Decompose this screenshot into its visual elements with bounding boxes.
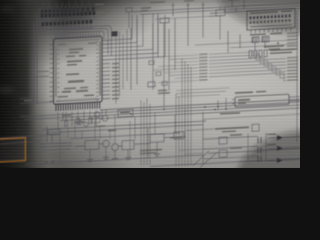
wire stubs from U1 bottom pins [58,110,106,131]
resistor R13 vertical [89,118,92,124]
label right of T1 [141,7,151,9]
component small box on title row [252,124,259,131]
wire collect line under connectors [41,28,93,34]
label under bus [220,112,240,114]
wire feeds from mid verticals to net rows [153,55,198,83]
U1 inner left pin numbers [57,45,59,102]
U1 inner top tick numbers [57,38,98,42]
transistor Q2 [102,115,108,121]
wire stubs below J2 [43,24,91,31]
label right of RN2 [270,48,296,51]
switch table S1 box [247,9,295,31]
wire long bottom rail [25,149,300,173]
wire rows above X1 [176,88,230,97]
U1 inner pin number rows [55,39,101,103]
transistor Q4 [112,144,119,151]
corner shade bottom-right [237,130,320,226]
resistor R8 small [162,82,167,86]
component D5 dark box [112,31,118,36]
S1 cells row 2 [250,19,291,24]
crystal Y1 box [219,137,227,144]
connector J1 pin boxes row 2 [41,11,96,17]
wire S1 top elbows to bus [225,0,244,12]
wire short drops center [68,126,110,142]
S1 bottom pin stubs [251,28,291,34]
wire right edge vertical [296,10,298,142]
wire vertical bundle center [141,58,191,169]
wire hairs to top edge [43,0,89,7]
transistor Q3 [103,140,110,147]
wire below top bus [155,16,223,20]
wire T1 down [128,12,130,28]
wire connector left bus vertical [39,8,41,34]
corner shade top-right [217,0,320,34]
U1 bottom pin comb [56,102,100,111]
wire nested elbows to IC right side [60,25,112,58]
U1 inner bottom tick numbers [57,97,96,101]
label bottom-center values [140,149,162,152]
S1 header text [250,11,278,14]
resistor R12 vertical [77,118,80,124]
label sheet title top [95,4,104,6]
transistor Q1 [94,112,100,118]
wire bundle bends right [179,149,203,154]
power +5V symbol b [187,3,190,16]
connector J1 pin boxes row 1 [41,8,80,13]
S1 numbers row [250,24,292,27]
film grain noise overlay [0,0,300,168]
label lower-left values [46,152,64,154]
wire long mid bus lines [20,99,300,122]
wire lower rails [42,121,206,133]
wire X1 to right edge [232,96,300,104]
wire top bus lines [132,3,300,17]
wire lower-left rails [0,135,60,144]
label mid net names [158,90,167,92]
resistor R11 vertical [65,120,68,126]
wire under RP1 [195,40,296,50]
crystal Y2 box [219,150,227,157]
label right-pin net names [112,63,119,100]
wire left bus verticals [34,16,37,104]
label clutter below U1 [62,115,71,117]
wire drops from bus to bottom components [75,108,185,146]
wire staircase fanout [209,50,286,85]
oscillator module X1 [235,94,289,107]
op-amp / MCU U1 body [54,36,103,104]
wire taps before X1 [218,98,226,110]
junction dots on bus [130,106,216,115]
U3 label [120,111,130,113]
U1 left pins [50,44,54,101]
reflection smudge on dark band a [0,87,15,93]
connector arrows to right edge [277,135,283,163]
wire vertical feed bottom-right [203,109,258,164]
U1 top pins [56,32,99,39]
wire inner verticals right of U1 [116,29,127,104]
U1 part number text [58,44,66,46]
net label rows mid-right [199,53,208,80]
resistor array RN2 [249,50,267,58]
connector J1 top tick row [42,4,90,10]
component C7 small box [148,82,155,87]
wire under bus [203,114,300,119]
wire stubs between connector rows [42,15,94,22]
component box U3 below U1 [118,109,133,117]
ground symbols row [87,154,160,162]
capacitor C8 small [149,61,154,65]
label crystals [230,134,242,136]
wire vertical near caps [248,133,266,163]
capacitor pairs C21 C22 C23 [258,137,261,162]
relay K1 box [85,140,99,150]
highlight annotation rectangle (orange) [0,138,26,162]
wire drops to bottom rail [60,118,185,163]
junction dots before X1 [217,105,227,110]
power +5V symbol c [202,3,205,16]
label MAIN BOARD [96,11,109,13]
label above X1 [235,91,253,94]
diode D2 small circle [84,122,88,126]
U1 right pins [102,40,110,99]
label column right edge pin list [287,32,298,50]
wire bottom-center net [70,133,186,161]
wire left joins to U1 [20,71,53,104]
resistor R14 box [92,117,100,123]
wire S1 area verticals [228,29,265,53]
component U5 box [150,134,164,143]
label left mid net [24,100,32,102]
wire lower-left pair [40,143,72,151]
resistor R20 block lower-left [47,126,60,143]
circuit schematic layer (skewed as in photo) [0,0,300,178]
connector J2 pin boxes row 3 [42,20,93,26]
label under S1 pins [250,33,266,35]
resistor R5 block [160,18,169,23]
resistor pack RP1 hatched boxes [252,36,269,42]
wire F1 taps [209,6,233,40]
junction node dot [277,42,279,44]
label rows right pin list 2 [287,57,298,81]
component F1 small box top-mid [216,10,225,16]
wire mid verticals [131,13,203,109]
wire fan U1 to top bus [110,13,165,60]
S1 DIP cells row 1 [250,14,291,19]
wire diagonal drops bottom-right [193,150,217,167]
power +5V symbol a [172,3,175,16]
reflection smudge on dark band b [0,7,14,12]
capacitor C9 small [156,72,161,76]
label RP1 value [264,45,284,48]
component U4 box [122,140,134,150]
component U6 box [174,132,184,140]
label bottom-right title row [215,126,249,129]
U1 inner right pin numbers [96,41,98,100]
node test points ++ [45,160,54,163]
component T1 small box top [126,8,132,13]
X1 inner label [238,99,250,101]
wire title row to left [186,129,214,130]
diode D1 small circle [78,120,82,124]
wire arrows to edge [268,137,300,161]
